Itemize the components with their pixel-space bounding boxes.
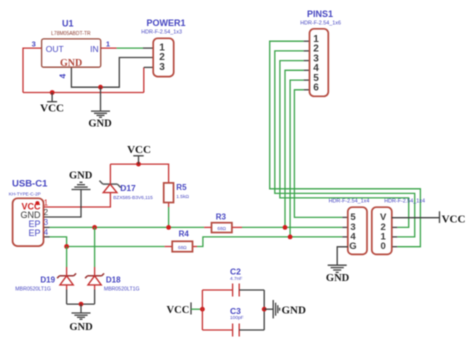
svg-text:MBR0520LT1G: MBR0520LT1G bbox=[104, 286, 140, 292]
svg-text:HDR-F-2.54_1x6: HDR-F-2.54_1x6 bbox=[300, 20, 341, 26]
svg-text:GND: GND bbox=[282, 305, 307, 317]
ground GND (left header) bbox=[326, 265, 350, 284]
wire U1 OUT to VCC rail bbox=[23, 48, 42, 92]
node R5 junction bbox=[166, 225, 171, 230]
wire VCC rail bbox=[23, 92, 144, 94]
power flag VCC (C2 C3) bbox=[167, 302, 203, 315]
node PINS1 pin5 junction bbox=[288, 235, 293, 240]
svg-text:D17: D17 bbox=[120, 183, 136, 193]
schottky diode D18 bbox=[85, 273, 104, 285]
svg-text:VCC: VCC bbox=[442, 213, 466, 225]
power flag VCC (right header) bbox=[440, 211, 466, 225]
svg-text:D19: D19 bbox=[40, 275, 55, 284]
capacitor C2 bbox=[233, 284, 240, 297]
svg-text:POWER1: POWER1 bbox=[146, 18, 185, 28]
connector USB-C1 bbox=[13, 198, 44, 246]
connector header 1x4 left bbox=[348, 207, 367, 254]
wire PINS1 pin6 to header pin5 bbox=[294, 90, 347, 218]
wire VCC top rail to R5 bbox=[110, 164, 168, 183]
node USB pin1 dot bbox=[35, 201, 39, 205]
svg-text:GND: GND bbox=[88, 119, 112, 130]
wire C2 C3 right rail bbox=[263, 290, 265, 330]
svg-text:4: 4 bbox=[58, 73, 68, 78]
wire PINS1 pin5 drop to R4 net bbox=[290, 80, 309, 237]
wire left header G pin to ground bbox=[337, 247, 348, 265]
ground GND (diodes) bbox=[69, 304, 93, 333]
svg-text:2: 2 bbox=[44, 208, 49, 217]
svg-text:R5: R5 bbox=[176, 183, 187, 192]
svg-text:C3: C3 bbox=[230, 306, 241, 316]
wire USB GND pin to ground bbox=[44, 190, 82, 218]
svg-text:GND: GND bbox=[69, 170, 93, 181]
svg-text:KH-TYPE-C-2P: KH-TYPE-C-2P bbox=[9, 191, 41, 196]
ground GND (U1) bbox=[88, 87, 112, 129]
svg-text:3: 3 bbox=[44, 218, 49, 227]
node C rail right junction bbox=[262, 307, 267, 312]
svg-text:R4: R4 bbox=[179, 230, 190, 239]
node D18 junction bbox=[92, 225, 97, 230]
wire C3 left bbox=[202, 329, 232, 331]
resistor R5 bbox=[164, 183, 174, 228]
node VCC top rail junction bbox=[136, 162, 141, 167]
svg-text:EP: EP bbox=[28, 228, 40, 238]
wire C2 C3 left rail bbox=[201, 290, 203, 330]
wire EP3 net USB to R3 bbox=[44, 226, 205, 228]
wire diodes to ground bbox=[67, 285, 95, 304]
svg-text:U1: U1 bbox=[62, 19, 74, 29]
svg-text:PINS1: PINS1 bbox=[307, 9, 333, 19]
svg-text:MBR0520LT1G: MBR0520LT1G bbox=[15, 286, 51, 292]
node PINS1 pin4 junction bbox=[283, 225, 288, 230]
wire D19 branch bbox=[66, 247, 68, 276]
wire D17 to VCC rail top bbox=[109, 164, 111, 184]
svg-text:68Ω: 68Ω bbox=[178, 245, 187, 250]
svg-text:GND: GND bbox=[326, 273, 350, 284]
svg-text:G: G bbox=[349, 241, 356, 252]
node diode ground junction bbox=[79, 302, 84, 307]
wire C2 left bbox=[202, 289, 232, 291]
wire right header V pin to VCC bbox=[392, 217, 440, 219]
wire PINS1 pin1 to header pin0 bbox=[270, 41, 421, 247]
connector header 1x4 right bbox=[372, 207, 392, 254]
svg-text:IN: IN bbox=[90, 44, 99, 54]
node VCC junction under U1 bbox=[50, 90, 55, 95]
node C rail left junction bbox=[200, 307, 205, 312]
svg-text:0: 0 bbox=[381, 241, 386, 252]
connector PINS1 bbox=[310, 29, 329, 97]
connector POWER1 bbox=[153, 38, 174, 76]
svg-text:6: 6 bbox=[313, 83, 319, 94]
svg-text:VCC: VCC bbox=[167, 305, 190, 316]
wire R4 to left header pin4 bbox=[197, 237, 348, 247]
svg-text:4: 4 bbox=[44, 228, 49, 237]
wire C2 right bbox=[239, 289, 264, 291]
wire U1 IN to POWER1 pin1 bbox=[101, 47, 154, 49]
power flag VCC (USB) bbox=[127, 144, 151, 164]
svg-text:1: 1 bbox=[106, 40, 110, 49]
ground GND (C2 C3, sideways) bbox=[264, 300, 306, 318]
svg-text:1.5kΩ: 1.5kΩ bbox=[176, 194, 189, 200]
wire USB VCC pin to D17 bbox=[44, 193, 111, 207]
wire D18 branch bbox=[94, 227, 96, 275]
svg-text:4.7nF: 4.7nF bbox=[230, 276, 242, 282]
wire C3 right bbox=[239, 329, 264, 331]
svg-text:R3: R3 bbox=[216, 213, 227, 222]
svg-text:USB-C1: USB-C1 bbox=[12, 178, 48, 189]
node D19 junction bbox=[64, 244, 69, 249]
svg-text:HDR-F-2.54_1x3: HDR-F-2.54_1x3 bbox=[141, 30, 182, 36]
wire PINS1 pin2 to header pin1 bbox=[275, 51, 415, 237]
schottky diode D19 bbox=[57, 273, 76, 285]
wire VCC rail to POWER1 pin3 bbox=[144, 67, 153, 92]
wire R3 to left header pin3 bbox=[242, 226, 348, 228]
svg-text:1: 1 bbox=[44, 198, 49, 207]
svg-text:3: 3 bbox=[32, 40, 36, 49]
resistor R3 bbox=[204, 223, 242, 233]
svg-text:VCC: VCC bbox=[40, 103, 64, 115]
svg-text:L78M05ABDT-TR: L78M05ABDT-TR bbox=[51, 31, 91, 37]
svg-text:GND: GND bbox=[60, 58, 82, 69]
wire PINS1 pin3 to header pin2 bbox=[280, 61, 409, 228]
svg-text:3: 3 bbox=[159, 62, 165, 73]
svg-text:C2: C2 bbox=[230, 267, 241, 277]
wire EP4 net USB to R4 bbox=[44, 237, 165, 247]
svg-text:BZX585-B3V6,115: BZX585-B3V6,115 bbox=[113, 195, 153, 201]
svg-text:HDR-F-2.54_1x4: HDR-F-2.54_1x4 bbox=[384, 199, 425, 205]
power flag VCC (U1 output) bbox=[40, 93, 64, 115]
resistor R4 bbox=[165, 241, 197, 251]
svg-text:OUT: OUT bbox=[46, 44, 64, 54]
wire PINS1 pin4 drop to R3 net bbox=[285, 70, 310, 227]
wire U1 GND pin to POWER1 pin2 bbox=[71, 58, 153, 88]
svg-text:68Ω: 68Ω bbox=[217, 226, 226, 231]
capacitor C3 bbox=[233, 324, 240, 337]
ground GND (USB, flipped) bbox=[69, 170, 93, 189]
svg-text:HDR-F-2.54_1x4: HDR-F-2.54_1x4 bbox=[329, 199, 370, 205]
svg-text:GND: GND bbox=[69, 322, 93, 333]
node GND junction under U1 bbox=[98, 85, 103, 90]
regulator U1 bbox=[42, 39, 101, 69]
svg-text:VCC: VCC bbox=[127, 144, 151, 156]
svg-text:100pF: 100pF bbox=[230, 315, 244, 321]
svg-text:D18: D18 bbox=[106, 275, 121, 284]
zener diode D17 bbox=[99, 181, 120, 193]
